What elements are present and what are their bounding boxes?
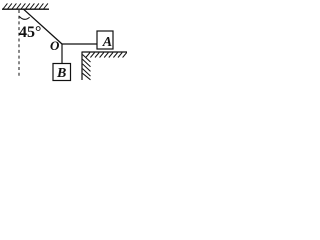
table top surface [82,51,127,53]
svg-text:O: O [50,38,60,53]
block B [53,64,71,81]
string from ceiling to O (45 degrees) [24,9,63,44]
table top hatching [86,53,127,58]
angle arc [19,17,29,20]
horizontal rod O to A [62,43,97,45]
dashed vertical reference line [18,10,20,76]
ceiling support line [2,8,49,10]
svg-text:A: A [102,35,112,50]
svg-text:B: B [56,66,66,81]
block A [97,31,113,49]
vertical string O to B [61,44,63,64]
ceiling hatching [3,3,48,9]
table left face hatching [83,55,91,80]
svg-text:45°: 45° [19,24,41,41]
table left face [81,52,83,81]
